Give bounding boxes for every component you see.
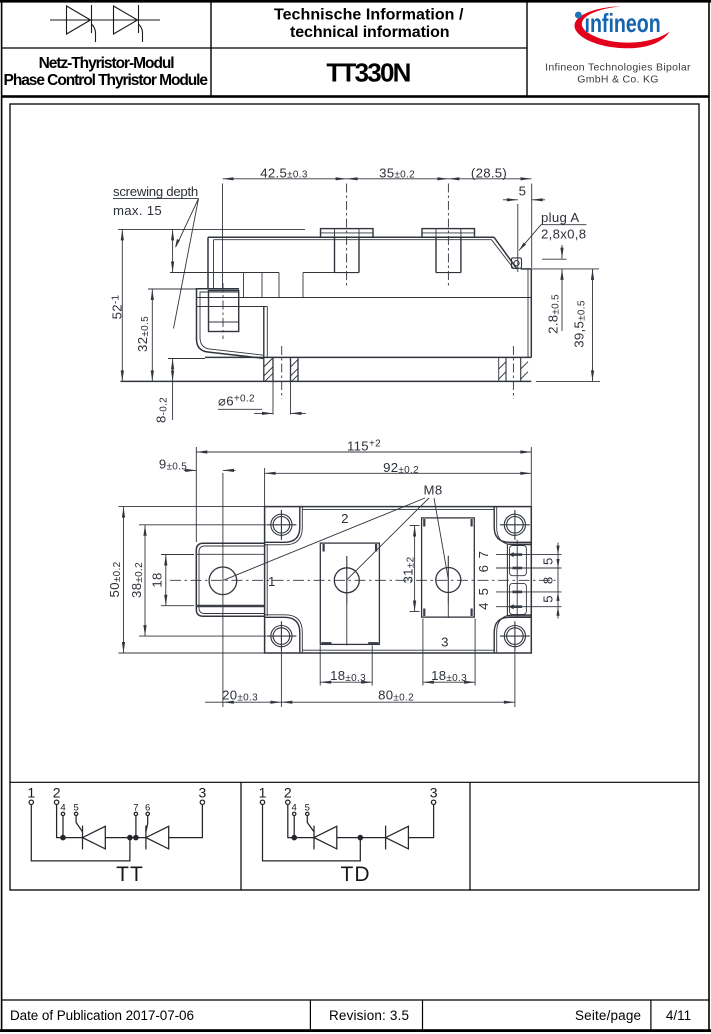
ext line terminal screw center <box>222 184 224 289</box>
M8 leaders <box>223 498 425 580</box>
svg-text:7: 7 <box>476 551 491 559</box>
arrows dim 31 <box>413 526 416 537</box>
svg-text:2.8±0.5: 2.8±0.5 <box>546 294 562 334</box>
dim 38 <box>139 524 266 526</box>
arrows dim 115 <box>196 450 207 453</box>
terminal 2 <box>54 800 58 804</box>
mounting hole top-left <box>271 514 292 535</box>
mounting hole bottom-right <box>504 626 525 647</box>
top dimension line <box>223 178 532 180</box>
dim 20 <box>280 651 282 707</box>
svg-text:32±0.5: 32±0.5 <box>135 316 151 352</box>
corner web top-right <box>494 507 531 542</box>
svg-text:⌀6+0.2: ⌀6+0.2 <box>218 394 255 409</box>
corner web bottom-right <box>494 617 531 652</box>
stud 2 center line <box>447 184 449 288</box>
thyristor V1 <box>82 826 84 850</box>
terminal horizontal line <box>197 306 268 308</box>
svg-text:6: 6 <box>476 565 491 573</box>
left terminal clamp outer profile <box>197 289 264 359</box>
dim 52-1 line <box>121 229 123 381</box>
plug leader <box>541 224 587 226</box>
svg-text:Phase Control Thyristor Module: Phase Control Thyristor Module <box>4 72 209 89</box>
svg-text:max. 15: max. 15 <box>113 203 162 218</box>
terminal stud 2 cap <box>422 229 475 238</box>
svg-text:31±2: 31±2 <box>401 556 417 583</box>
svg-text:8: 8 <box>541 576 556 584</box>
dim screwing depth 15 line <box>172 229 174 272</box>
dim 39.5 <box>536 380 600 382</box>
svg-text:6: 6 <box>145 803 150 814</box>
corner web top-left <box>265 507 300 542</box>
phi6 dim <box>272 381 274 414</box>
svg-text:7: 7 <box>133 803 138 814</box>
pad 1 screw hole <box>334 568 359 593</box>
pad 1 pocket <box>320 543 379 644</box>
pad 2 screw hole <box>436 568 461 593</box>
dims 5 8 5 right <box>522 554 561 556</box>
junction dot terminal 4 <box>292 835 296 839</box>
svg-text:ınfineon: ınfineon <box>585 8 661 37</box>
connector polarize arrows <box>509 552 514 557</box>
terminal stud 1 shank <box>334 237 336 272</box>
svg-text:5: 5 <box>519 184 527 199</box>
left terminal block inner <box>199 546 265 614</box>
svg-text:3: 3 <box>199 785 207 801</box>
svg-text:42.5±0.3: 42.5±0.3 <box>260 165 308 180</box>
arrows dim 18 left <box>164 555 167 566</box>
arrows dims 5 8 5 <box>556 546 559 555</box>
svg-text:2: 2 <box>284 785 292 801</box>
baseplate hole center lines <box>281 346 283 399</box>
svg-text:plug A: plug A <box>541 210 579 225</box>
internal step line y273 <box>170 272 279 274</box>
pad 2 pocket <box>422 518 475 617</box>
side view dim texts <box>110 165 588 423</box>
svg-text:92±0.2: 92±0.2 <box>383 460 419 476</box>
terminal hole <box>209 567 237 595</box>
connector pins <box>512 555 522 607</box>
svg-text:4: 4 <box>60 803 65 814</box>
screwing depth label <box>113 198 199 200</box>
svg-text:3: 3 <box>441 635 449 650</box>
left terminal block outer <box>196 543 264 616</box>
dim 80 <box>514 651 516 707</box>
arrows dim 80 <box>281 701 292 704</box>
svg-text:115+2: 115+2 <box>347 439 381 454</box>
corner web bottom-left <box>265 617 300 652</box>
terminal screw center line <box>222 283 224 339</box>
gate wires <box>62 816 64 838</box>
svg-text:Seite/page: Seite/page <box>575 1008 641 1023</box>
terminal 4 <box>293 812 296 815</box>
terminal 3 <box>431 800 435 804</box>
body right edge <box>530 269 532 358</box>
arrows dim 9 <box>185 469 196 472</box>
junction dot terminal 4 <box>61 835 65 839</box>
dim 115 <box>196 451 531 453</box>
svg-text:50±0.2: 50±0.2 <box>107 561 123 597</box>
svg-text:2: 2 <box>341 511 349 526</box>
bottom view texts <box>107 439 556 704</box>
connector pocket <box>506 544 508 616</box>
terminal 6 <box>146 812 149 815</box>
main center line <box>170 579 556 581</box>
ext line body right <box>531 184 533 269</box>
left terminal clamp inner profile <box>200 292 264 355</box>
svg-text:TT: TT <box>116 863 144 886</box>
terminal right verticals <box>263 307 265 358</box>
terminal screw pocket <box>209 291 239 332</box>
gate wires <box>293 816 295 838</box>
svg-text:TD: TD <box>341 863 371 886</box>
svg-text:technical information: technical information <box>290 24 450 41</box>
terminal stud 1 cap <box>321 229 374 238</box>
body flange line <box>197 297 532 299</box>
arrows dim 5 <box>507 198 518 201</box>
svg-text:2: 2 <box>53 785 61 801</box>
svg-text:1: 1 <box>268 574 276 589</box>
dim 50 <box>119 506 265 508</box>
arrows dims 18 pads <box>320 681 331 684</box>
svg-text:1: 1 <box>259 785 267 801</box>
svg-text:4: 4 <box>476 602 491 610</box>
dim 5 plug <box>503 199 518 201</box>
arrows dim 39.5 <box>591 269 594 280</box>
diode <box>385 826 387 850</box>
thyristor V2 <box>145 826 147 850</box>
footer table <box>2 1000 709 1030</box>
svg-text:Technische Information /: Technische Information / <box>274 7 464 24</box>
baseplate right hole section <box>498 357 500 381</box>
pad circle ext lines <box>346 605 348 646</box>
wire terminal 2 down <box>288 805 314 838</box>
svg-text:5: 5 <box>541 557 556 565</box>
svg-text:18±0.3: 18±0.3 <box>431 668 467 684</box>
arrows dim 8 <box>171 359 174 370</box>
circuit row lines <box>10 781 699 783</box>
svg-text:9±0.5: 9±0.5 <box>159 456 187 472</box>
baseplate left hole section <box>263 357 265 381</box>
header thyristor symbols <box>50 5 160 42</box>
internal verticals <box>278 273 280 298</box>
connector center line <box>516 540 518 617</box>
body outline <box>265 507 532 653</box>
terminal 1 <box>260 800 264 804</box>
plug A tab <box>512 258 522 268</box>
svg-text:(28.5): (28.5) <box>471 165 507 180</box>
terminal 2 <box>286 800 290 804</box>
svg-text:18: 18 <box>150 572 165 587</box>
plug ledge <box>521 268 532 270</box>
pad 2 corner marks <box>424 519 471 616</box>
svg-text:2,8x0,8: 2,8x0,8 <box>541 227 586 242</box>
arrows dim 32 <box>151 289 154 300</box>
module body top edge <box>208 236 494 238</box>
svg-text:1: 1 <box>27 785 35 801</box>
mounting hole top-right <box>504 514 525 535</box>
dim 92 <box>265 472 532 474</box>
pad 1 corner marks <box>321 544 378 643</box>
arrows dim 50 <box>122 507 125 518</box>
ext terminal hole center <box>222 473 224 707</box>
hatching left hole <box>264 358 298 381</box>
svg-text:5: 5 <box>305 803 310 814</box>
terminal metal bottom edge (thick) <box>196 605 264 607</box>
terminal metal top edge <box>196 553 264 555</box>
wire to terminal 3 <box>169 805 203 838</box>
junction dot terminal 7 <box>134 835 138 839</box>
plug leader arrow <box>519 243 526 251</box>
dims 18 pads <box>319 646 321 686</box>
terminal 5 <box>74 812 77 815</box>
body top-right chamfer <box>494 237 517 269</box>
infineon logo <box>575 6 670 48</box>
cap top extension line <box>118 228 305 230</box>
svg-text:Netz-Thyristor-Modul: Netz-Thyristor-Modul <box>39 55 175 72</box>
terminal 1 <box>29 800 33 804</box>
svg-text:5: 5 <box>73 803 78 814</box>
svg-text:5: 5 <box>476 588 491 596</box>
drawing frame <box>10 104 699 890</box>
dim 31 <box>410 525 420 527</box>
terminal stud 2 shank <box>435 237 437 272</box>
body left edge <box>207 237 209 289</box>
svg-text:M8: M8 <box>424 483 443 498</box>
junction dot terminal 1 loop <box>128 835 132 839</box>
svg-text:4: 4 <box>292 803 297 814</box>
wire terminal 2 down <box>57 805 83 838</box>
svg-text:3: 3 <box>430 785 438 801</box>
baseplate <box>205 356 531 358</box>
svg-text:4/11: 4/11 <box>666 1008 691 1023</box>
svg-text:5: 5 <box>541 595 556 603</box>
side view dim arrows <box>121 177 594 415</box>
terminal 5 <box>306 812 309 815</box>
arrows dim 52 <box>121 229 124 240</box>
terminal 1 loop <box>31 805 130 861</box>
svg-text:80±0.2: 80±0.2 <box>378 688 414 704</box>
svg-text:GmbH & Co. KG: GmbH & Co. KG <box>577 73 659 85</box>
dim 9 <box>184 469 196 471</box>
arrows dim phi6 <box>262 412 273 415</box>
dim 32 line <box>151 289 153 381</box>
stud 1 center line <box>346 184 348 288</box>
svg-text:20±0.3: 20±0.3 <box>222 688 258 704</box>
terminal 4 <box>61 812 64 815</box>
svg-text:Date of Publication 2017-07-06: Date of Publication 2017-07-06 <box>10 1008 194 1023</box>
svg-text:8-0.2: 8-0.2 <box>154 397 170 423</box>
terminal 7 <box>134 812 137 815</box>
wire between thyristors <box>105 837 146 839</box>
wire to terminal 3 <box>408 805 433 838</box>
leader hook arrow <box>175 239 180 248</box>
svg-text:39,5±0.5: 39,5±0.5 <box>572 300 588 348</box>
svg-text:TT330N: TT330N <box>326 58 411 88</box>
svg-text:screwing depth: screwing depth <box>113 184 199 199</box>
dim 18 left <box>161 554 194 556</box>
header table <box>2 2 709 98</box>
arrows dim 20 <box>223 701 234 704</box>
svg-text:Revision: 3.5: Revision: 3.5 <box>329 1008 409 1023</box>
svg-text:Infineon Technologies Bipolar: Infineon Technologies Bipolar <box>545 62 691 74</box>
thyristor V1 <box>313 826 315 850</box>
svg-text:35±0.2: 35±0.2 <box>379 165 415 180</box>
terminal 3 <box>200 800 204 804</box>
svg-text:18±0.3: 18±0.3 <box>330 668 366 684</box>
junction dot terminal 1 loop <box>358 835 362 839</box>
wire to diode <box>337 837 386 839</box>
arrows dim 2.8 <box>560 248 563 259</box>
arrows screwing depth <box>171 229 174 240</box>
arrows top dim chain <box>223 177 234 180</box>
terminal 1 loop <box>263 805 361 861</box>
mounting hole bottom-left <box>271 626 292 647</box>
arrows dim 38 <box>143 525 146 536</box>
dim 2.8 <box>542 258 567 260</box>
dim 8 line <box>168 358 205 360</box>
bottom view arrows <box>122 450 560 703</box>
svg-text:38±0.2: 38±0.2 <box>129 562 145 598</box>
arrows dim 92 <box>265 472 276 475</box>
